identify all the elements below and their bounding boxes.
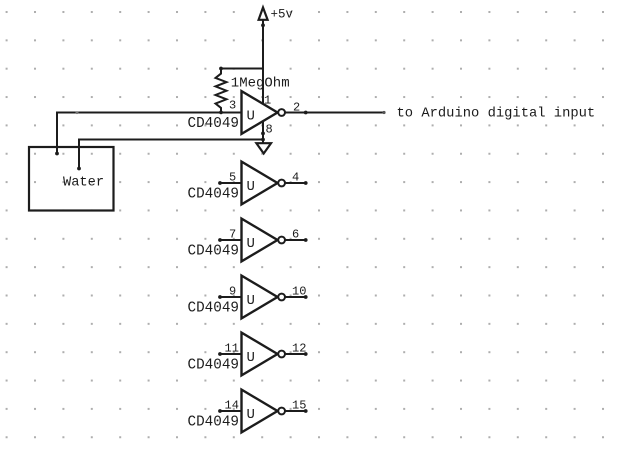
svg-text:9: 9 — [229, 285, 236, 299]
svg-text:1MegOhm: 1MegOhm — [231, 75, 290, 91]
wire input pin 5 — [220, 182, 242, 184]
svg-text:6: 6 — [292, 228, 299, 242]
junction on +5V wire — [261, 23, 265, 27]
+5V power symbol — [259, 8, 294, 22]
svg-text:5: 5 — [229, 171, 236, 185]
wire output pin 6 — [285, 239, 306, 241]
wire end dot pin 6 — [304, 238, 308, 242]
junction wire segment — [76, 111, 79, 114]
svg-text:U: U — [247, 109, 255, 125]
wire resistor top to +5V — [221, 68, 263, 70]
wire end dot pin 7 — [218, 238, 222, 242]
wire input pin 11 — [220, 353, 242, 355]
junction output net — [304, 111, 308, 115]
svg-text:U: U — [247, 407, 255, 423]
svg-text:Water: Water — [63, 175, 104, 190]
wire end dot pin 14 — [218, 409, 222, 413]
inverter U1D (CD4049 gate) — [242, 276, 286, 319]
wire end dot pin 12 — [304, 352, 308, 356]
wire end dot pin 11 — [218, 352, 222, 356]
inverter U1A (CD4049 gate) — [242, 91, 286, 134]
wire water pin 2 to ground net — [79, 140, 263, 169]
terminal dot water pin 2 — [77, 167, 81, 171]
ground — [256, 143, 271, 153]
wire end dot pin 4 — [304, 181, 308, 185]
junction resistor top — [219, 67, 223, 71]
svg-text:8: 8 — [266, 123, 273, 137]
wire output pin 10 — [285, 296, 306, 298]
svg-text:4: 4 — [292, 171, 299, 185]
svg-text:to Arduino digital input: to Arduino digital input — [397, 105, 596, 121]
svg-text:U: U — [247, 236, 255, 252]
svg-text:CD4049: CD4049 — [188, 358, 239, 374]
svg-text:U: U — [247, 350, 255, 366]
svg-text:CD4049: CD4049 — [188, 301, 239, 317]
junction pin 8 — [261, 132, 265, 136]
wire end dot pin 5 — [218, 181, 222, 185]
wire output pin 12 — [285, 353, 306, 355]
inverter U1E (CD4049 gate) — [242, 333, 286, 376]
wire end dot — [382, 111, 385, 114]
svg-text:U: U — [247, 293, 255, 309]
resistor R1 1MegOhm — [216, 69, 290, 113]
terminal dot water pin 1 — [55, 152, 59, 156]
svg-text:U: U — [247, 179, 255, 195]
svg-text:14: 14 — [225, 399, 239, 413]
svg-text:15: 15 — [292, 399, 306, 413]
wire input pin 14 — [220, 410, 242, 412]
svg-text:1: 1 — [264, 93, 271, 107]
junction ground net — [261, 138, 265, 142]
svg-text:3: 3 — [229, 99, 236, 113]
svg-text:12: 12 — [292, 342, 306, 356]
inverter U1F (CD4049 gate) — [242, 390, 286, 433]
svg-text:7: 7 — [229, 228, 236, 242]
inverter U1C (CD4049 gate) — [242, 219, 286, 262]
inverter U1B (CD4049 gate) — [242, 162, 286, 205]
wire output pin 15 — [285, 410, 306, 412]
wire +5V vertical to pin 1 — [262, 20, 264, 106]
wire end dot pin 10 — [304, 295, 308, 299]
water sensor box — [29, 147, 114, 211]
svg-text:CD4049: CD4049 — [188, 116, 239, 132]
junction resistor bottom / pin 3 — [219, 111, 223, 115]
wire input net (water sensor to pin 3) — [57, 113, 242, 154]
svg-text:CD4049: CD4049 — [188, 415, 239, 431]
wire pin 8 to ground — [262, 121, 264, 143]
svg-text:10: 10 — [292, 285, 306, 299]
wire output pin 4 — [285, 182, 306, 184]
wire input pin 7 — [220, 239, 242, 241]
svg-text:+5v: +5v — [271, 8, 294, 22]
svg-text:11: 11 — [225, 342, 239, 356]
wire end dot pin 15 — [304, 409, 308, 413]
svg-text:CD4049: CD4049 — [188, 244, 239, 260]
wire end dot pin 9 — [218, 295, 222, 299]
svg-text:CD4049: CD4049 — [188, 187, 239, 203]
svg-text:2: 2 — [293, 101, 300, 115]
wire input pin 9 — [220, 296, 242, 298]
wire output pin 2 to Arduino — [285, 112, 384, 114]
